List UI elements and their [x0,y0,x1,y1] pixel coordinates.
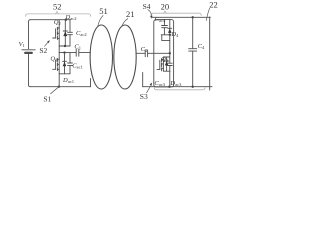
wire: left edge with rounded corners [29,20,31,49]
capacitor C_ac3 (snubber of Q3) [167,63,172,71]
bracket 20 over rectifier [151,13,201,15]
leader for 21 [122,19,128,27]
wire: right top bus [152,16,210,18]
wire: lower cell bottom [163,70,169,72]
wire: leg to bottom bus [58,74,60,87]
wire: lower cell top [163,56,169,58]
box around rectifier leg [154,20,174,87]
wire: lower cell bottom [59,73,70,75]
wire: right bottom bus [143,86,212,88]
svg-text:52: 52 [53,1,62,11]
battery V1 [22,49,35,51]
node: diode top junction [65,19,67,21]
svg-text:Cac1: Cac1 [72,63,83,70]
diode D_ac2 (body diode of Q2) [63,20,67,46]
svg-text:D4: D4 [170,31,179,38]
bracket 52 over left inverter [26,14,91,17]
leader for S4 [148,10,152,17]
node: right leg bottom junction [168,86,170,88]
leader for S2 [45,42,49,46]
svg-text:S2: S2 [39,46,47,55]
svg-text:Cac3: Cac3 [154,80,165,87]
node: mid junction right [169,52,171,54]
svg-text:C1: C1 [74,43,81,50]
capacitor C2 (series, secondary) [136,50,170,57]
capacitor C1 (series resonant) [76,49,90,56]
arrowhead S4 [150,16,153,19]
svg-text:Cac4: Cac4 [155,16,166,23]
node: lower diode top junction [63,51,65,53]
leader for S3 [147,86,151,93]
wire: left top bus [31,19,71,21]
wire: right coil bottom lead upturn [142,73,144,87]
leader for 51 [98,16,103,27]
wire: right edge vertical [209,17,211,90]
svg-text:51: 51 [99,6,108,16]
leader for S1 [51,88,58,94]
tick from label 52 to bracket [56,11,59,14]
coil 21 secondary [114,25,136,89]
wire: top cell bottom with side jog [161,34,171,36]
svg-text:V1: V1 [19,41,25,48]
wire: right leg into lower cell [169,53,171,63]
svg-text:S1: S1 [43,94,51,103]
svg-text:C2: C2 [141,46,148,53]
node: C4 bottom junction [192,86,194,88]
wire: right leg to bottom bus [169,71,171,87]
svg-text:S4: S4 [143,2,151,11]
wire: mid output wire [58,46,60,53]
arrowhead S3 [150,83,152,86]
svg-text:C4: C4 [198,43,205,50]
svg-text:21: 21 [126,9,135,19]
svg-text:Cac2: Cac2 [76,30,87,37]
capacitor C_ac1 (snubber of Q1) [68,53,73,74]
diode D4 [168,20,172,35]
faint bottom bracket under rectifier [154,88,205,90]
capacitor C_ac2 (snubber of Q2) [68,20,73,46]
node: diode bottom junction [64,45,66,47]
svg-text:Dac3: Dac3 [169,80,182,87]
node: top cell junction [169,34,171,36]
tick from label 20 to bracket [164,11,167,14]
wire: left coil bottom lead upturn [90,79,92,87]
capacitor C_ac4 [162,20,168,35]
wire: right leg upper [169,35,171,54]
svg-text:Dac1: Dac1 [62,77,75,84]
transistor Q3 MOSFET [157,57,163,71]
wire: left bottom bus [31,86,91,88]
transistor Q1 MOSFET [53,53,60,74]
svg-text:Q3: Q3 [161,56,169,63]
capacitor C4 (output filter) [189,17,197,86]
node: C4 top junction [192,16,194,18]
svg-text:Dac2: Dac2 [65,14,78,21]
svg-text:S3: S3 [140,92,148,101]
svg-text:20: 20 [161,1,170,11]
arrowhead S2 [47,40,50,43]
svg-text:22: 22 [209,0,218,9]
wire: upper cell bottom [59,45,70,47]
leader for 22 [206,8,209,20]
svg-text:Q1: Q1 [50,56,57,63]
node: S1 junction on bottom bus [58,86,60,88]
diode D_ac1 (body diode of Q1) [63,53,67,74]
transistor Q2 MOSFET [53,20,60,46]
svg-text:Q2: Q2 [54,19,61,26]
diode D_ac3 (body diode of Q3) [165,57,169,71]
coil 51 primary [90,25,112,89]
